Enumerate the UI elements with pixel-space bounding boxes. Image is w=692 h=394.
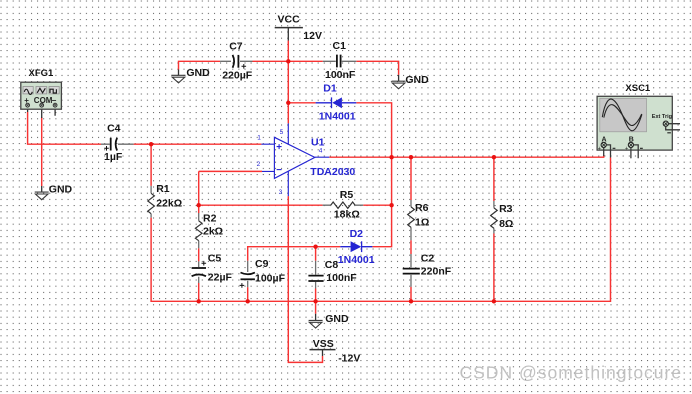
svg-text:3: 3 [279, 189, 283, 196]
svg-text:12V: 12V [303, 30, 322, 42]
svg-text:R6: R6 [415, 202, 429, 214]
svg-text:-12V: -12V [338, 353, 360, 365]
svg-text:C1: C1 [333, 40, 347, 52]
svg-text:C4: C4 [107, 122, 121, 134]
svg-text:TDA2030: TDA2030 [310, 166, 355, 178]
svg-text:R3: R3 [499, 203, 513, 215]
svg-text:100nF: 100nF [325, 69, 356, 81]
svg-text:XSC1: XSC1 [625, 83, 651, 94]
svg-text:U1: U1 [311, 137, 325, 149]
svg-text:C7: C7 [229, 41, 243, 53]
svg-text:1: 1 [257, 135, 261, 142]
svg-text:GND: GND [405, 74, 429, 86]
svg-text:1µF: 1µF [104, 151, 123, 163]
svg-text:1Ω: 1Ω [415, 216, 429, 228]
svg-text:C2: C2 [421, 253, 435, 265]
svg-text:D2: D2 [350, 228, 364, 240]
svg-text:1N4001: 1N4001 [338, 254, 375, 266]
svg-text:R1: R1 [156, 183, 170, 195]
svg-text:+: + [625, 146, 628, 152]
svg-text:2kΩ: 2kΩ [203, 226, 223, 238]
svg-text:220µF: 220µF [222, 70, 253, 82]
svg-text:2: 2 [257, 161, 261, 168]
svg-text:18kΩ: 18kΩ [334, 209, 360, 221]
svg-text:220nF: 220nF [421, 266, 452, 278]
svg-text:B: B [629, 136, 634, 143]
svg-text:GND: GND [49, 183, 73, 195]
svg-text:VCC: VCC [278, 13, 301, 25]
svg-text:R5: R5 [340, 189, 354, 201]
svg-text:C5: C5 [208, 253, 222, 265]
svg-text:GND: GND [325, 313, 349, 325]
svg-text:1N4001: 1N4001 [319, 110, 356, 122]
svg-text:5: 5 [280, 129, 284, 136]
svg-text:22kΩ: 22kΩ [156, 198, 182, 210]
svg-text:8Ω: 8Ω [499, 218, 513, 230]
svg-text:VSS: VSS [313, 338, 334, 350]
svg-text:GND: GND [186, 67, 210, 79]
svg-text:C8: C8 [325, 259, 339, 271]
svg-text:R2: R2 [203, 213, 217, 225]
svg-text:+: + [598, 146, 601, 152]
svg-text:Ext Trig: Ext Trig [652, 114, 672, 120]
svg-text:A: A [602, 136, 607, 143]
svg-text:XFG1: XFG1 [29, 68, 55, 79]
svg-text:100nF: 100nF [326, 272, 357, 284]
svg-text:C9: C9 [255, 258, 269, 270]
svg-text:22µF: 22µF [208, 272, 233, 284]
svg-text:D1: D1 [323, 83, 337, 95]
svg-text:CSDN @somethingtocure: CSDN @somethingtocure [460, 362, 683, 382]
svg-text:100µF: 100µF [255, 272, 286, 284]
